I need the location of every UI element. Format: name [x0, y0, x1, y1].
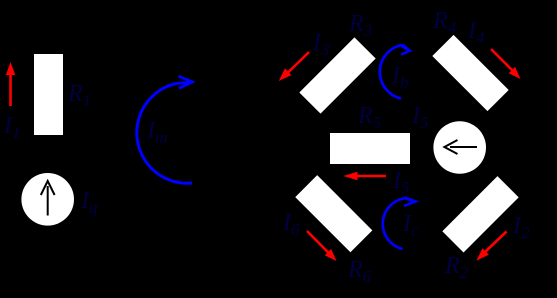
current source Iq	[21, 173, 74, 226]
current source ammeter	[433, 121, 486, 174]
mesh current arrow Im	[137, 76, 192, 183]
resistor R2	[442, 176, 518, 252]
current arrow I4	[491, 49, 521, 79]
current arrow I2	[476, 232, 506, 261]
current arrow I3	[279, 52, 309, 81]
resistor R4	[432, 35, 508, 111]
current arrow I5	[343, 172, 386, 180]
resistor R6	[295, 175, 372, 252]
current arrow I1	[6, 62, 15, 106]
mesh current arrow Ib	[380, 45, 410, 99]
current arrow I6	[307, 231, 337, 261]
resistor R3	[299, 37, 375, 113]
mesh current arrow Ic	[383, 197, 416, 249]
resistor R5	[330, 133, 410, 164]
resistor R1	[34, 54, 63, 135]
